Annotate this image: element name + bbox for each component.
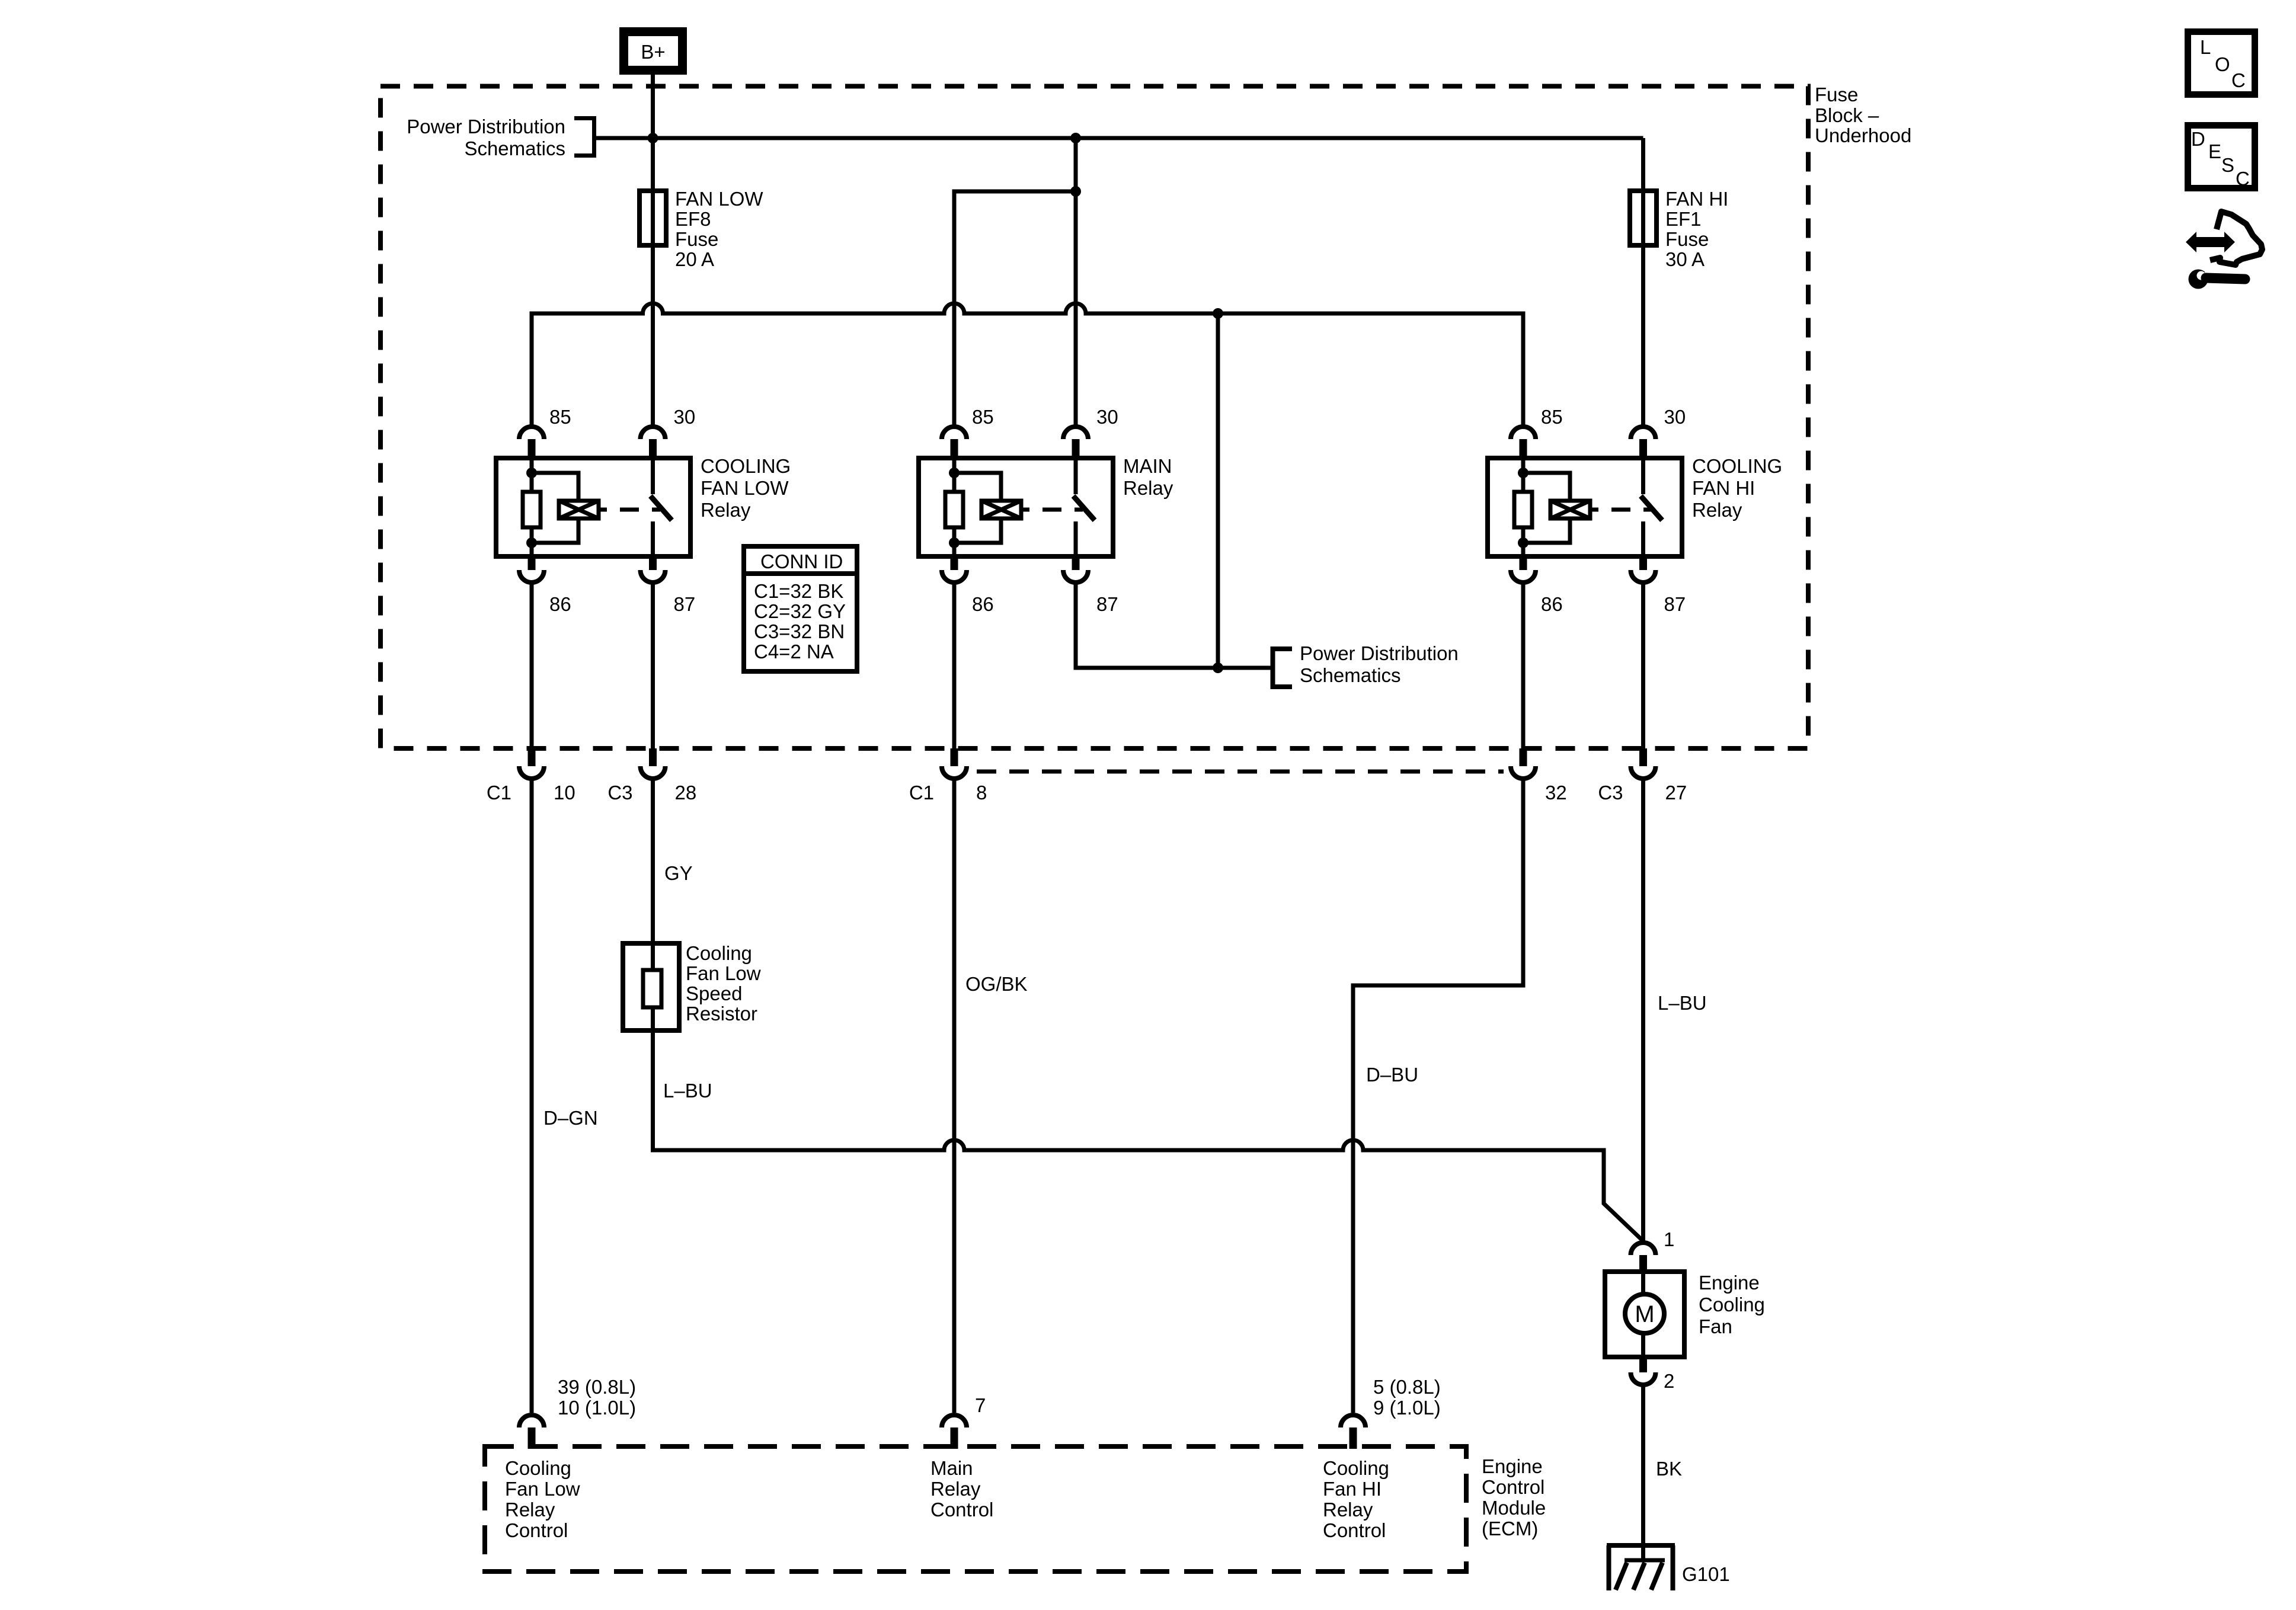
wire MAIN relay 87 to power distribution tie [1076, 584, 1272, 668]
svg-text:CONN ID: CONN ID [760, 550, 843, 572]
svg-text:Relay: Relay [505, 1499, 555, 1521]
relay K1 COOLING FAN LOW switch blade [651, 458, 672, 556]
relay K3 COOLING FAN HI pin 85 label [1541, 406, 1563, 428]
svg-text:C: C [2231, 69, 2246, 91]
engine cooling fan pin 2 label [1664, 1370, 1674, 1392]
svg-text:D: D [2191, 128, 2205, 150]
svg-text:Control: Control [1323, 1519, 1386, 1541]
svg-text:BK: BK [1656, 1458, 1682, 1480]
wire drop from bus to power distribution tie [1216, 313, 1220, 668]
relay K1 COOLING FAN LOW pin 85 label [549, 406, 571, 428]
connector exit pin 8 [942, 748, 967, 779]
svg-text:C1: C1 [487, 782, 511, 804]
relay K1 COOLING FAN LOW coil resistor element [523, 458, 541, 556]
svg-text:C1=32 BK: C1=32 BK [754, 580, 843, 602]
svg-text:M: M [1635, 1301, 1654, 1327]
wire D-BU label [1366, 1064, 1418, 1086]
wire BK label [1656, 1458, 1682, 1480]
wire D-GN cooling fan low relay control [530, 779, 534, 1413]
wire D-BU cooling fan hi relay control [1353, 779, 1523, 1413]
svg-text:OG/BK: OG/BK [965, 973, 1028, 995]
engine cooling fan motor [1605, 1272, 1684, 1357]
svg-text:Control: Control [930, 1499, 993, 1521]
svg-text:Speed: Speed [686, 982, 742, 1004]
service navigation icon: double arrow [2186, 232, 2235, 252]
svg-text:C3: C3 [607, 782, 632, 804]
svg-text:28: 28 [675, 782, 697, 804]
node junction bus to power distribution drop [1213, 308, 1223, 319]
relay K1 COOLING FAN LOW pin 87 label [674, 593, 696, 615]
connector exit pin 10 [519, 748, 544, 779]
ECM cooling fan hi relay control label [1323, 1457, 1389, 1541]
svg-text:Relay: Relay [1323, 1499, 1373, 1521]
wire D-GN label [543, 1107, 598, 1129]
svg-text:Cooling: Cooling [686, 942, 752, 964]
svg-text:87: 87 [674, 593, 696, 615]
svg-text:Control: Control [1482, 1476, 1544, 1498]
svg-text:20 A: 20 A [675, 248, 714, 270]
svg-text:D–BU: D–BU [1366, 1064, 1418, 1086]
node junction main relay drop [1070, 133, 1081, 143]
wire GY label [664, 862, 693, 884]
svg-text:32: 32 [1545, 782, 1567, 804]
svg-text:85: 85 [549, 406, 571, 428]
svg-text:Control: Control [505, 1519, 568, 1541]
svg-text:30 A: 30 A [1665, 248, 1705, 270]
svg-text:G101: G101 [1682, 1563, 1730, 1585]
resistor label [686, 942, 761, 1025]
connector exit pin 27 [1631, 748, 1656, 779]
svg-text:MAIN: MAIN [1123, 455, 1172, 477]
relay K1 COOLING FAN LOW pin 86 label [549, 593, 571, 615]
svg-text:EF1: EF1 [1665, 208, 1702, 230]
svg-text:Cooling: Cooling [505, 1457, 571, 1479]
relay K1 COOLING FAN LOW pin 30 terminal [641, 427, 666, 458]
svg-text:27: 27 [1665, 782, 1687, 804]
svg-text:86: 86 [1541, 593, 1563, 615]
svg-text:COOLING: COOLING [1692, 455, 1782, 477]
svg-text:Power Distribution: Power Distribution [1300, 642, 1459, 664]
relay K3 COOLING FAN HI pin 30 terminal [1631, 427, 1656, 458]
relay K3 COOLING FAN HI name label [1692, 455, 1782, 521]
svg-text:Fan: Fan [1699, 1315, 1732, 1337]
svg-text:L–BU: L–BU [663, 1080, 712, 1102]
connector pin 32 labels [1545, 782, 1567, 804]
LOC icon box [2188, 32, 2255, 95]
wire BK to ground [1641, 1385, 1645, 1560]
svg-text:FAN LOW: FAN LOW [675, 188, 763, 210]
connector exit pin 28 [641, 748, 666, 779]
relay K2 MAIN pin 87 label [1096, 593, 1118, 615]
engine control module label [1482, 1455, 1546, 1539]
fuse block underhood dashed border [380, 87, 1808, 749]
wire L-BU cooling fan hi feed [1641, 779, 1645, 1242]
service navigation icon: vehicle outline [2210, 212, 2262, 265]
svg-text:5 (0.8L): 5 (0.8L) [1373, 1376, 1441, 1398]
svg-text:D–GN: D–GN [543, 1107, 598, 1129]
svg-text:Fuse: Fuse [1665, 228, 1709, 250]
fuse FAN HI EF1 label [1665, 188, 1728, 270]
relay K3 COOLING FAN HI box [1488, 458, 1682, 556]
svg-text:Relay: Relay [930, 1478, 981, 1500]
relay K2 MAIN pin 30 label [1096, 406, 1118, 428]
svg-text:Relay: Relay [1692, 499, 1742, 521]
svg-text:Fuse: Fuse [1815, 84, 1858, 105]
ECM pin label 39/10 [558, 1376, 636, 1419]
svg-text:2: 2 [1664, 1370, 1674, 1392]
connector pin 27 labels [1598, 782, 1687, 804]
svg-text:7: 7 [975, 1394, 986, 1416]
relay K2 MAIN pin 85 label [972, 406, 994, 428]
relay K2 MAIN actuator dashed linkage [1043, 508, 1083, 512]
svg-text:C3: C3 [1598, 782, 1623, 804]
connector pin 8 labels [909, 782, 987, 804]
connector exit pin 32 [1511, 748, 1536, 779]
engine cooling fan label [1699, 1272, 1765, 1337]
svg-text:85: 85 [1541, 406, 1563, 428]
fuse FAN LOW EF8 [639, 191, 666, 245]
svg-text:(ECM): (ECM) [1482, 1518, 1538, 1539]
svg-text:87: 87 [1096, 593, 1118, 615]
svg-text:Fan Low: Fan Low [505, 1478, 580, 1500]
relay K1 COOLING FAN LOW actuator dashed linkage [620, 508, 660, 512]
ECM pin label 5/9 [1373, 1376, 1441, 1419]
resistor cooling fan low speed [623, 943, 679, 1030]
svg-text:S: S [2221, 154, 2234, 176]
node junction power distribution tie [1213, 662, 1223, 673]
svg-text:Block –: Block – [1815, 104, 1879, 126]
DESC icon box [2188, 126, 2255, 190]
wire main relay 86 down to fuse block connector [952, 584, 957, 748]
wire OG/BK main relay control [952, 779, 957, 1413]
relay K2 MAIN name label [1123, 455, 1173, 499]
svg-text:L: L [2200, 36, 2211, 58]
relay K3 COOLING FAN HI pin 86 label [1541, 593, 1563, 615]
svg-text:1: 1 [1664, 1228, 1674, 1250]
svg-text:Fan Low: Fan Low [686, 962, 761, 984]
CONN ID table [744, 546, 857, 671]
wire L-BU label (resistor output) [663, 1080, 712, 1102]
svg-text:87: 87 [1664, 593, 1686, 615]
svg-text:10 (1.0L): 10 (1.0L) [558, 1397, 636, 1419]
wire cooling fan hi relay 87 down to fuse block connector [1641, 584, 1645, 748]
relay K1 COOLING FAN LOW box [496, 458, 690, 556]
relay K1 COOLING FAN LOW pin 85 terminal [519, 427, 544, 458]
svg-text:10: 10 [554, 782, 575, 804]
relay K3 COOLING FAN HI pin 30 label [1664, 406, 1686, 428]
wire B+ down to FAN LOW fuse and relay pin 30 [651, 75, 655, 425]
service navigation icon: wrench [2189, 265, 2246, 289]
relay K3 COOLING FAN HI coil resistor element [1514, 458, 1532, 556]
wire branch to MAIN relay pin 85 [954, 191, 1076, 425]
svg-text:O: O [2215, 53, 2230, 75]
relay K1 COOLING FAN LOW pin 86 terminal [519, 556, 544, 582]
engine cooling fan pin 2 terminal [1631, 1357, 1656, 1385]
svg-text:L–BU: L–BU [1658, 992, 1707, 1014]
relay K2 MAIN coil suppressor X-box branch [954, 473, 1029, 543]
wire power distribution feed line [596, 136, 1643, 140]
relay K3 COOLING FAN HI actuator dashed linkage [1611, 508, 1652, 512]
relay K3 COOLING FAN HI pin 87 terminal [1631, 556, 1656, 582]
svg-text:30: 30 [1096, 406, 1118, 428]
relay K3 COOLING FAN HI coil suppressor X-box branch [1523, 473, 1598, 543]
relay K1 COOLING FAN LOW pin 87 terminal [641, 556, 666, 582]
node junction B+ / power line [648, 133, 658, 143]
ground G101 symbol [1607, 1545, 1675, 1590]
svg-text:Fan HI: Fan HI [1323, 1478, 1382, 1500]
svg-text:Cooling: Cooling [1323, 1457, 1389, 1479]
engine cooling fan pin 1 terminal [1631, 1243, 1656, 1272]
fuse FAN HI EF1 [1630, 191, 1657, 245]
engine control module dashed border [485, 1446, 1466, 1571]
wire relay supply bus with hops [532, 303, 1523, 425]
svg-text:30: 30 [1664, 406, 1686, 428]
relay K1 COOLING FAN LOW pin 30 label [674, 406, 696, 428]
relay K3 COOLING FAN HI switch blade [1641, 458, 1662, 556]
svg-text:EF8: EF8 [675, 208, 711, 230]
relay K3 COOLING FAN HI coil junction dots [1518, 468, 1528, 548]
relay K1 COOLING FAN LOW coil suppressor X-box branch [532, 473, 607, 543]
connector pin 28 labels [607, 782, 696, 804]
svg-text:C2=32 GY: C2=32 GY [754, 600, 846, 622]
wire OG/BK label [965, 973, 1028, 995]
svg-text:86: 86 [549, 593, 571, 615]
wire FAN HI fuse drop [1641, 138, 1645, 425]
wire cooling fan hi relay 86 down to fuse block connector [1521, 584, 1526, 748]
svg-text:39 (0.8L): 39 (0.8L) [558, 1376, 636, 1398]
svg-text:C1: C1 [909, 782, 934, 804]
relay K2 MAIN coil resistor element [945, 458, 963, 556]
power distribution schematics label (right) [1300, 642, 1459, 686]
ECM pin terminal cooling fan hi relay control [1341, 1415, 1366, 1449]
relay K2 MAIN coil junction dots [949, 468, 960, 548]
relay K2 MAIN pin 85 terminal [942, 427, 967, 458]
svg-text:Engine: Engine [1699, 1272, 1760, 1294]
svg-text:Relay: Relay [1123, 477, 1173, 499]
fuse block label [1815, 84, 1911, 146]
fuse FAN LOW EF8 label [675, 188, 763, 270]
svg-text:30: 30 [674, 406, 696, 428]
svg-text:8: 8 [976, 782, 987, 804]
wire cooling fan low relay 87 down to fuse block connector [651, 584, 655, 748]
engine cooling fan pin 1 label [1664, 1228, 1674, 1250]
power distribution schematics label (left) [407, 116, 565, 159]
svg-text:FAN LOW: FAN LOW [701, 477, 789, 499]
relay K2 MAIN pin 86 terminal [942, 556, 967, 582]
connector pin 10 labels [487, 782, 575, 804]
svg-text:FAN HI: FAN HI [1692, 477, 1755, 499]
ECM pin terminal main relay control [942, 1415, 967, 1449]
wire GY to resistor [651, 779, 655, 943]
svg-text:Cooling: Cooling [1699, 1294, 1765, 1315]
svg-text:B+: B+ [641, 41, 665, 63]
ECM pin terminal cooling fan low relay control [519, 1415, 544, 1449]
svg-text:Resistor: Resistor [686, 1003, 757, 1025]
svg-text:Schematics: Schematics [1300, 664, 1401, 686]
svg-text:GY: GY [664, 862, 693, 884]
relay K3 COOLING FAN HI pin 86 terminal [1511, 556, 1536, 582]
battery feed B+ symbol [624, 32, 683, 71]
svg-text:Schematics: Schematics [464, 137, 565, 159]
svg-text:E: E [2208, 140, 2221, 162]
relay K2 MAIN pin 86 label [972, 593, 994, 615]
svg-text:C3=32 BN: C3=32 BN [754, 620, 845, 642]
relay K1 COOLING FAN LOW name label [701, 455, 791, 521]
relay K1 COOLING FAN LOW coil junction dots [526, 468, 537, 548]
power distribution bracket (left) [574, 119, 594, 156]
node junction main relay 85 branch [1070, 186, 1081, 197]
svg-text:Module: Module [1482, 1497, 1546, 1519]
svg-text:85: 85 [972, 406, 994, 428]
ground G101 label [1682, 1563, 1730, 1585]
wire L-BU resistor output to fan pin 1 with hops [653, 1030, 1643, 1240]
power distribution bracket (right) [1273, 649, 1293, 687]
relay K2 MAIN pin 30 terminal [1063, 427, 1088, 458]
relay K3 COOLING FAN HI pin 87 label [1664, 593, 1686, 615]
relay K2 MAIN box [919, 458, 1113, 556]
relay K3 COOLING FAN HI pin 85 terminal [1511, 427, 1536, 458]
connector C2 dashed boundary line [977, 770, 1504, 774]
svg-text:Relay: Relay [701, 499, 751, 521]
relay K2 MAIN pin 87 terminal [1063, 556, 1088, 582]
relay K2 MAIN switch blade [1073, 458, 1095, 556]
wire L-BU label (fan hi) [1658, 992, 1707, 1014]
wire drop to MAIN relay pin 30 [1074, 138, 1078, 425]
ECM main relay control label [930, 1457, 993, 1521]
svg-text:COOLING: COOLING [701, 455, 791, 477]
svg-text:C4=2 NA: C4=2 NA [754, 641, 834, 662]
svg-text:Power Distribution: Power Distribution [407, 116, 565, 137]
wire cooling fan low relay 86 down to fuse block connector [530, 584, 534, 748]
svg-text:Main: Main [930, 1457, 973, 1479]
svg-text:Engine: Engine [1482, 1455, 1543, 1477]
svg-text:86: 86 [972, 593, 994, 615]
ECM cooling fan low relay control label [505, 1457, 580, 1541]
svg-text:FAN HI: FAN HI [1665, 188, 1728, 210]
svg-text:Fuse: Fuse [675, 228, 718, 250]
svg-text:Underhood: Underhood [1815, 124, 1911, 146]
ECM pin label 7 [975, 1394, 986, 1416]
svg-text:9 (1.0L): 9 (1.0L) [1373, 1397, 1441, 1419]
svg-text:C: C [2236, 168, 2250, 190]
